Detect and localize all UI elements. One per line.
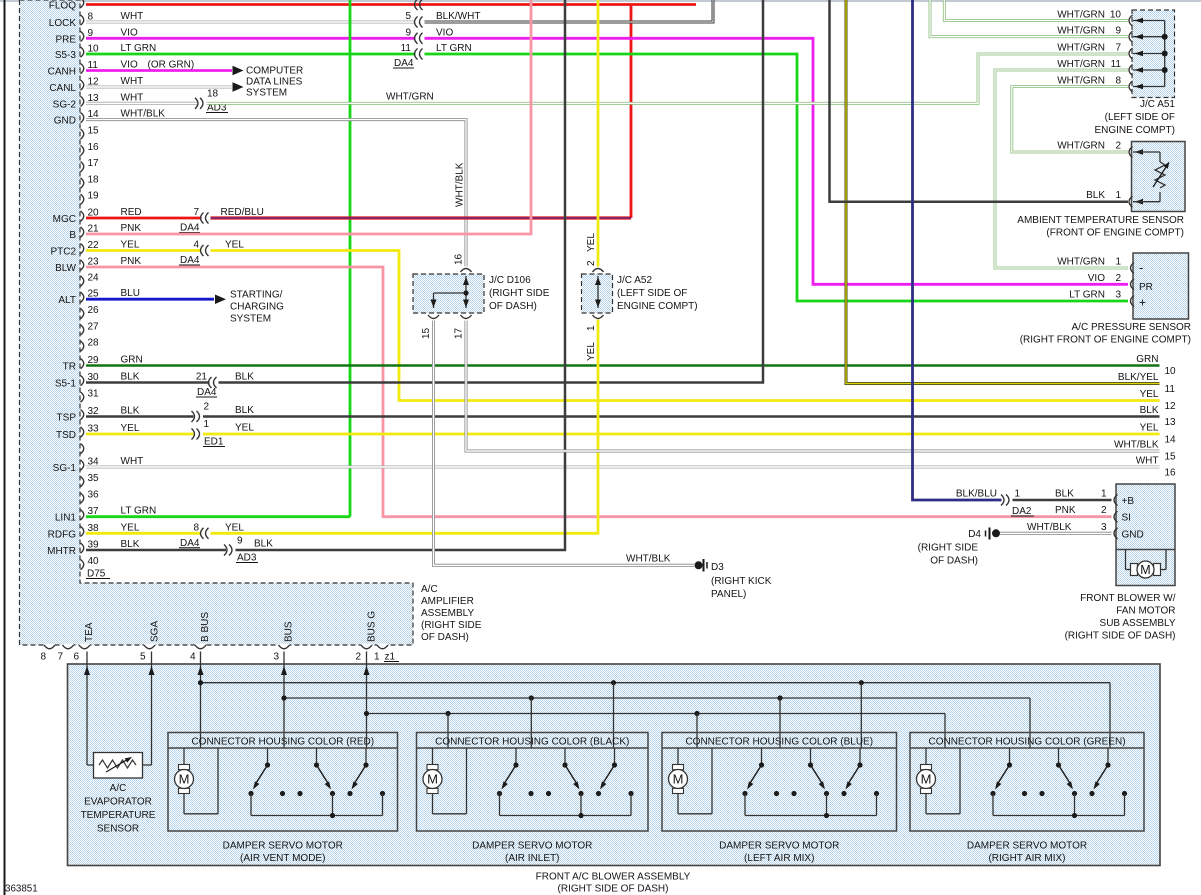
- pin 17 of A/C amplifier: [81, 158, 100, 172]
- wire WHT pin 13: [86, 102, 197, 105]
- wire VIO row 9 to A/C pressure sensor pin 2: [425, 38, 1129, 284]
- right edge wire label WHT/BLK 15: [1114, 440, 1176, 463]
- svg-text:36: 36: [88, 490, 100, 501]
- svg-text:2: 2: [1115, 141, 1121, 152]
- wire RED/BLU row 20 label: [221, 207, 264, 218]
- wire WHT/BLK label near D3: [626, 553, 671, 564]
- svg-text:FLOQ: FLOQ: [49, 1, 76, 12]
- pin 19 of A/C amplifier: [81, 191, 100, 205]
- svg-text:WHT/GRN: WHT/GRN: [1057, 141, 1105, 152]
- in-line connector 7 DA4 on row 20: [179, 207, 209, 234]
- wire BLK/BLU label: [956, 489, 997, 500]
- left page border: [4, 0, 6, 895]
- svg-text:YEL: YEL: [225, 240, 244, 251]
- z1 pin name BUS: [284, 621, 295, 642]
- svg-text:SUB ASSEMBLY: SUB ASSEMBLY: [1100, 618, 1176, 629]
- svg-text:WHT: WHT: [121, 11, 144, 22]
- svg-text:LT GRN: LT GRN: [1069, 290, 1105, 301]
- svg-text:BLK/WHT: BLK/WHT: [436, 11, 480, 22]
- wire BLK row 30 label: [235, 372, 254, 383]
- pin 16 of A/C amplifier: [81, 142, 100, 156]
- pin 33 TSD of A/C amplifier: [56, 423, 140, 441]
- svg-text:S5-3: S5-3: [55, 50, 77, 61]
- servo motor M4: [917, 748, 961, 814]
- svg-text:+: +: [1139, 296, 1146, 310]
- wire PNK label at blower pin 2: [1055, 505, 1107, 516]
- svg-text:WHT/GRN: WHT/GRN: [1057, 9, 1105, 20]
- servo switch common rail box 2: [500, 794, 632, 819]
- svg-text:31: 31: [88, 389, 100, 400]
- connector housing color label 3: [685, 737, 873, 748]
- wire WHT/BLK J/C D106 pin 15 to D3: [434, 321, 695, 566]
- svg-text:A/C: A/C: [421, 584, 438, 595]
- pressure sensor pin 3 arc: [1069, 290, 1146, 310]
- right edge wire label YEL 12: [1140, 389, 1176, 412]
- svg-text:J/C A52: J/C A52: [617, 275, 652, 286]
- damper servo motor box 1 outline: [168, 733, 398, 832]
- svg-text:9: 9: [1115, 26, 1121, 37]
- svg-text:YEL: YEL: [121, 522, 140, 533]
- pin 29 TR of A/C amplifier: [63, 355, 143, 373]
- svg-text:GRN: GRN: [1136, 354, 1158, 365]
- svg-text:13: 13: [1165, 417, 1177, 428]
- svg-text:3: 3: [1115, 290, 1121, 301]
- svg-text:4: 4: [193, 240, 199, 251]
- servo switch pivots box 4: [1007, 748, 1111, 768]
- svg-text:SYSTEM: SYSTEM: [246, 88, 287, 99]
- svg-text:PNK: PNK: [1055, 505, 1076, 516]
- pin of A/C amplifier: [81, 444, 84, 454]
- svg-text:5: 5: [405, 11, 411, 22]
- damper servo motor caption 2: [472, 841, 592, 865]
- connector D4 (right side of dash): [918, 528, 1000, 567]
- right edge wire label GRN 10: [1136, 354, 1176, 377]
- svg-text:WHT/BLK: WHT/BLK: [1027, 522, 1072, 533]
- pin 18 of A/C amplifier: [81, 174, 100, 188]
- svg-text:2: 2: [1101, 505, 1107, 516]
- svg-text:11: 11: [401, 43, 412, 54]
- svg-text:GND: GND: [1122, 529, 1144, 540]
- J/C A52 label: [617, 275, 698, 312]
- wire WHT/GRN top edge to J/C A51 pin 10: [944, 0, 1128, 21]
- svg-text:10: 10: [1165, 366, 1177, 377]
- svg-text:(RIGHT SIDE OF DASH): (RIGHT SIDE OF DASH): [558, 884, 669, 895]
- wire YEL row 33 to right edge 14: [203, 433, 1160, 436]
- front A/C blower assembly box: [68, 664, 1161, 866]
- svg-text:OF DASH): OF DASH): [930, 556, 978, 567]
- pin 20 MGC of A/C amplifier: [53, 207, 142, 225]
- svg-text:19: 19: [88, 191, 100, 202]
- svg-text:(RIGHT AIR MIX): (RIGHT AIR MIX): [988, 853, 1065, 864]
- svg-text:PANEL): PANEL): [711, 589, 746, 600]
- svg-text:7: 7: [193, 207, 199, 218]
- J/C D106 pin 17 arc: [454, 315, 472, 339]
- svg-text:(AIR INLET): (AIR INLET): [505, 853, 559, 864]
- wire YEL row 22 label: [225, 240, 244, 251]
- svg-text:YEL: YEL: [586, 233, 597, 252]
- svg-text:3: 3: [274, 652, 280, 663]
- bus wire 1 (B BUS rail): [198, 680, 1110, 685]
- svg-text:(RIGHT SIDE: (RIGHT SIDE: [918, 543, 979, 554]
- svg-text:4: 4: [190, 652, 196, 663]
- svg-text:(OR GRN): (OR GRN): [148, 60, 195, 71]
- svg-text:(LEFT SIDE OF: (LEFT SIDE OF: [617, 288, 687, 299]
- pin 23 BLW of A/C amplifier: [55, 256, 141, 274]
- wire WHT/GRN row 13 label: [386, 92, 434, 103]
- svg-text:BLK: BLK: [121, 406, 140, 417]
- bus 1 drops into servo boxes: [614, 683, 1111, 748]
- svg-text:1: 1: [1101, 489, 1107, 500]
- svg-text:DAMPER SERVO MOTOR: DAMPER SERVO MOTOR: [967, 841, 1087, 852]
- svg-text:21: 21: [196, 372, 208, 383]
- svg-text:GND: GND: [54, 116, 76, 127]
- wire YEL row 22 to right edge 12: [211, 251, 1160, 401]
- in-line connector 18 AD3 on row 13: [195, 89, 228, 114]
- pin 35 of A/C amplifier: [81, 473, 100, 487]
- wire BLK/WHT row 8 label: [436, 11, 480, 22]
- z1 pin numbers: [41, 652, 400, 663]
- damper servo motor box 3 outline: [662, 733, 897, 832]
- J/C A51 pin 7 arc and label: [1057, 42, 1164, 59]
- svg-text:GRN: GRN: [121, 355, 143, 366]
- svg-text:B BUS: B BUS: [200, 612, 211, 642]
- z1 pin name SGA: [150, 621, 161, 642]
- diagram number 363851: [5, 884, 38, 895]
- servo switch pivots box 3: [759, 748, 863, 768]
- svg-text:ALT: ALT: [58, 295, 76, 306]
- svg-text:BLK: BLK: [121, 372, 140, 383]
- servo switch contacts box 1: [248, 791, 385, 796]
- svg-text:WHT/BLK: WHT/BLK: [455, 162, 466, 207]
- svg-text:BUS G: BUS G: [367, 611, 378, 642]
- svg-text:WHT/BLK: WHT/BLK: [626, 553, 671, 564]
- pin 34 SG-1 of A/C amplifier: [53, 456, 144, 474]
- svg-text:6: 6: [74, 652, 80, 663]
- svg-text:OF DASH): OF DASH): [489, 301, 537, 312]
- wire BLK row 39 to top edge: [236, 0, 566, 550]
- wire BLK row 30 to top edge: [219, 0, 764, 383]
- svg-text:RDFG: RDFG: [48, 529, 77, 540]
- pin 25 ALT of A/C amplifier: [58, 288, 140, 306]
- svg-text:(RIGHT SIDE: (RIGHT SIDE: [489, 288, 550, 299]
- svg-text:SG-1: SG-1: [53, 463, 77, 474]
- bus 2 drops into servo boxes: [531, 698, 1030, 748]
- pin 15 of A/C amplifier: [81, 126, 100, 140]
- svg-text:D75: D75: [87, 569, 106, 580]
- wire WHT/GRN row 13 to J/C A51 pin 7: [207, 54, 1129, 103]
- connector D3 (right kick panel): [695, 559, 772, 600]
- connector arcs on FLOQ wire: [415, 0, 423, 10]
- servo switch pivots box 1: [265, 748, 369, 768]
- svg-text:M: M: [673, 772, 684, 787]
- servo switch common rail box 3: [745, 794, 877, 819]
- wire evaporator sensor left lead to amp pin 6: [84, 652, 94, 766]
- ambient sensor internal wiring: [1133, 152, 1160, 202]
- in-line connector 11 DA4 on row 10: [393, 43, 423, 69]
- front blower motor M: [1126, 550, 1167, 579]
- servo motor M1: [175, 748, 219, 814]
- svg-text:DAMPER SERVO MOTOR: DAMPER SERVO MOTOR: [719, 841, 839, 852]
- J/C A51 label: [1094, 99, 1175, 136]
- wire VIO pin 11: [86, 69, 232, 72]
- wire LT GRN row 10 label: [436, 43, 472, 54]
- A/C pressure sensor box: [1133, 253, 1189, 319]
- svg-text:RED/BLU: RED/BLU: [221, 207, 264, 218]
- svg-text:PNK: PNK: [121, 223, 142, 234]
- svg-text:z1: z1: [385, 652, 396, 663]
- pin 12 CANL of A/C amplifier: [49, 76, 143, 94]
- pin 36 of A/C amplifier: [81, 490, 100, 504]
- wire WHT/GRN J/C A51 pin 8 to ambient temperature sensor pin 2: [1012, 87, 1128, 153]
- svg-text:12: 12: [1165, 401, 1177, 412]
- J/C A51 pin 9 arc and label: [1057, 26, 1164, 43]
- bus wire 2 (BUS rail): [281, 695, 1030, 700]
- ambient temperature sensor label: [1017, 215, 1184, 239]
- rotated WHT/BLK label on D106 pin 16 wire: [455, 162, 466, 207]
- svg-text:D4: D4: [968, 529, 981, 540]
- svg-text:YEL: YEL: [586, 342, 597, 361]
- label (OR GRN) on pin 11 wire: [148, 60, 195, 71]
- svg-text:PTC2: PTC2: [50, 247, 76, 258]
- J/C A51 pin 11 arc and label: [1057, 59, 1164, 76]
- svg-text:11: 11: [1111, 59, 1122, 70]
- svg-text:WHT/GRN: WHT/GRN: [1057, 257, 1105, 268]
- svg-text:WHT: WHT: [121, 456, 144, 467]
- svg-text:8: 8: [1115, 75, 1121, 86]
- svg-text:35: 35: [88, 473, 100, 484]
- connector ID D75 label: [86, 569, 110, 580]
- svg-text:BLW: BLW: [55, 263, 76, 274]
- servo switch arms box 4: [995, 765, 1108, 790]
- svg-text:DA2: DA2: [1012, 506, 1032, 517]
- servo motor M2: [423, 748, 467, 814]
- svg-text:(FRONT OF ENGINE COMPT): (FRONT OF ENGINE COMPT): [1046, 228, 1184, 239]
- z1 pin name B BUS: [200, 612, 211, 642]
- J/C A51 box: [1132, 10, 1175, 98]
- front blower pin 2 SI arc: [1114, 511, 1131, 524]
- svg-text:J/C D106: J/C D106: [489, 275, 531, 286]
- front blower label: [1065, 593, 1176, 642]
- svg-text:WHT: WHT: [1136, 456, 1159, 467]
- svg-text:M: M: [179, 772, 190, 787]
- wire BLK row 39 label: [254, 539, 273, 550]
- wire WHT/BLK D4 to front blower GND: [1000, 532, 1112, 535]
- svg-text:RED: RED: [121, 207, 142, 218]
- wire RED pin 20 to in-line connector: [86, 217, 202, 220]
- svg-text:26: 26: [88, 305, 100, 316]
- wire VIO row 9 label: [436, 27, 453, 38]
- servo switch contacts box 4: [990, 791, 1127, 796]
- svg-text:A/C PRESSURE SENSOR: A/C PRESSURE SENSOR: [1072, 322, 1191, 333]
- svg-text:WHT/GRN: WHT/GRN: [1057, 59, 1105, 70]
- front blower pin 3 GND arc: [1114, 528, 1144, 541]
- svg-text:8: 8: [193, 522, 199, 533]
- svg-text:17: 17: [454, 327, 465, 339]
- wire BLK pin 30 to in-line connector: [86, 381, 210, 384]
- svg-text:BLK/BLU: BLK/BLU: [956, 489, 997, 500]
- svg-text:STARTING/: STARTING/: [230, 289, 283, 300]
- servo switch contacts box 2: [497, 791, 634, 796]
- svg-text:DA4: DA4: [180, 255, 200, 266]
- svg-text:17: 17: [88, 158, 100, 169]
- damper servo motor caption 1: [223, 841, 343, 865]
- servo switch arms box 1: [253, 765, 366, 790]
- bus wire 3 (BUS G rail): [364, 711, 945, 716]
- J/C A51 pin 8 arc and label: [1057, 75, 1164, 92]
- wire GRN pin 29 to right edge 10: [86, 364, 1160, 367]
- J/C D106 label: [489, 275, 550, 312]
- wire evaporator sensor right lead to amp pin 5: [143, 652, 155, 766]
- damper servo motor caption 4: [967, 841, 1087, 865]
- pin 28 of A/C amplifier: [81, 338, 100, 352]
- svg-text:SENSOR: SENSOR: [97, 824, 139, 835]
- servo switch pivots box 2: [513, 748, 617, 768]
- A/C evaporator temperature sensor label: [81, 783, 156, 835]
- svg-text:1: 1: [1115, 190, 1121, 201]
- A/C pressure sensor label: [1020, 322, 1191, 346]
- svg-text:18: 18: [88, 174, 100, 185]
- pin 9 PRE of A/C amplifier: [55, 27, 138, 45]
- pin FLOQ of A/C amplifier: [49, 0, 84, 12]
- svg-text:VIO: VIO: [1088, 273, 1105, 284]
- svg-text:ED1: ED1: [204, 437, 224, 448]
- svg-text:MGC: MGC: [53, 214, 76, 225]
- wire BLU pin 25: [86, 298, 214, 301]
- pin 22 PTC2 of A/C amplifier: [50, 240, 139, 258]
- svg-text:AD3: AD3: [237, 553, 257, 564]
- wire BLK pin 39 to in-line connector: [86, 549, 226, 552]
- J/C A52 internal arrows: [595, 277, 601, 308]
- svg-text:ASSEMBLY: ASSEMBLY: [421, 608, 474, 619]
- svg-text:+B: +B: [1122, 496, 1135, 507]
- pin 30 S5-1 of A/C amplifier: [55, 372, 140, 390]
- svg-text:AMPLIFIER: AMPLIFIER: [421, 596, 474, 607]
- svg-text:SGA: SGA: [150, 621, 161, 642]
- wire RED pin FLOQ: [86, 3, 696, 6]
- svg-text:WHT/GRN: WHT/GRN: [1057, 42, 1105, 53]
- svg-text:2: 2: [204, 402, 210, 413]
- svg-text:10: 10: [1110, 9, 1122, 20]
- wire YEL J/C A52 pin 2 to top edge: [597, 0, 600, 267]
- in-line connector 5 on row 8: [405, 11, 422, 28]
- svg-text:BLK: BLK: [1055, 489, 1074, 500]
- svg-text:DA4: DA4: [180, 538, 200, 549]
- svg-text:ENGINE COMPT): ENGINE COMPT): [1094, 125, 1175, 136]
- A/C amplifier assembly box (D75, blue dashed): [20, 0, 414, 645]
- damper servo motor box 2 outline: [417, 733, 649, 832]
- svg-text:BLK: BLK: [1086, 190, 1105, 201]
- servo switch arms box 3: [747, 765, 860, 790]
- wire BLK row 32 label: [235, 405, 254, 416]
- svg-text:CANH: CANH: [48, 67, 76, 78]
- J/C D106 box: [413, 274, 484, 313]
- svg-text:5: 5: [140, 652, 146, 663]
- svg-text:7: 7: [1115, 42, 1121, 53]
- svg-text:BLK: BLK: [1140, 405, 1159, 416]
- connector housing color label 2: [435, 737, 629, 748]
- front A/C blower assembly label: [536, 872, 691, 895]
- svg-text:1: 1: [1015, 489, 1021, 500]
- servo switch contacts box 3: [742, 791, 879, 796]
- z1 pin name TEA: [84, 622, 95, 642]
- pin 21 B of A/C amplifier: [69, 223, 141, 241]
- svg-text:D3: D3: [711, 562, 724, 573]
- svg-text:CHARGING: CHARGING: [230, 301, 284, 312]
- wire BLK row 32 to right edge 13: [203, 415, 1160, 418]
- in-line connector 8 DA4 on row 38: [179, 522, 209, 549]
- svg-text:PRE: PRE: [55, 34, 76, 45]
- amplifier bottom connector z1 pin bumps: [44, 644, 388, 649]
- svg-text:TR: TR: [63, 362, 76, 373]
- svg-text:DATA LINES: DATA LINES: [246, 77, 303, 88]
- in-line connector 21 DA4 on row 30: [196, 372, 217, 399]
- svg-text:1: 1: [1115, 257, 1121, 268]
- svg-text:15: 15: [88, 126, 100, 137]
- svg-text:VIO: VIO: [436, 27, 453, 38]
- wire LT GRN branch from top edge down to pin 37 row: [349, 0, 352, 517]
- pin 11 CANH of A/C amplifier: [48, 60, 138, 78]
- svg-text:BLK/YEL: BLK/YEL: [1118, 372, 1159, 383]
- J/C D106 internal arrows: [431, 277, 470, 308]
- wire BLK top edge to ambient sensor pin 1: [830, 0, 1129, 202]
- svg-text:-: -: [1139, 260, 1143, 275]
- svg-text:8: 8: [41, 652, 47, 663]
- svg-text:18: 18: [207, 89, 219, 100]
- cut-off top edge line: [0, 0, 1201, 2]
- svg-text:TSP: TSP: [57, 413, 77, 424]
- arrow to computer data lines (row 11): [233, 66, 244, 76]
- wire LT GRN pin 10 to in-line connector: [86, 53, 416, 56]
- wire YEL pin 22 to in-line connector: [86, 249, 202, 252]
- svg-text:CONNECTOR HOUSING COLOR (BLUE): CONNECTOR HOUSING COLOR (BLUE): [685, 737, 873, 748]
- svg-text:BLU: BLU: [121, 288, 140, 299]
- J/C A51 internal bus: [1162, 21, 1168, 87]
- svg-text:CONNECTOR HOUSING COLOR (BLACK: CONNECTOR HOUSING COLOR (BLACK): [435, 737, 629, 748]
- z1 pin name BUS G: [367, 611, 378, 642]
- svg-text:15: 15: [421, 327, 432, 339]
- wire PNK pin 21 to top edge: [86, 0, 531, 234]
- svg-text:3: 3: [1101, 522, 1107, 533]
- svg-text:YEL: YEL: [121, 423, 140, 434]
- J/C A52 pin 2 arc: [586, 233, 604, 272]
- svg-text:(RIGHT FRONT OF ENGINE COMPT): (RIGHT FRONT OF ENGINE COMPT): [1020, 335, 1191, 346]
- svg-text:VIO: VIO: [121, 60, 138, 71]
- pin 14 GND of A/C amplifier: [54, 109, 166, 127]
- J/C A52 pin 1 arc: [586, 315, 604, 361]
- ambient temperature sensor box: [1132, 142, 1186, 212]
- svg-text:SI: SI: [1122, 513, 1131, 524]
- wire BLK/YEL from top edge to right edge 11: [846, 0, 1160, 384]
- svg-text:9: 9: [405, 27, 411, 38]
- svg-text:14: 14: [1165, 435, 1177, 446]
- svg-text:7: 7: [58, 652, 64, 663]
- svg-text:A/C: A/C: [110, 783, 127, 794]
- svg-text:YEL: YEL: [121, 240, 140, 251]
- wire VIO pin 9 to in-line connector: [86, 37, 416, 40]
- wire WHT pin 8 to in-line connector: [86, 21, 416, 24]
- svg-text:363851: 363851: [5, 884, 38, 895]
- J/C A52 box: [582, 274, 613, 313]
- svg-text:WHT/GRN: WHT/GRN: [386, 92, 434, 103]
- wire YEL pin 38 to in-line connector: [86, 532, 202, 535]
- svg-text:24: 24: [88, 273, 100, 284]
- J/C D106 internal bus: [434, 276, 469, 308]
- svg-text:(LEFT SIDE OF: (LEFT SIDE OF: [1105, 112, 1175, 123]
- in-line connector 4 DA4 on row 22: [179, 240, 209, 267]
- svg-text:CANL: CANL: [49, 83, 76, 94]
- svg-text:(RIGHT SIDE: (RIGHT SIDE: [421, 620, 482, 631]
- pin 8 LOCK of A/C amplifier: [49, 11, 144, 29]
